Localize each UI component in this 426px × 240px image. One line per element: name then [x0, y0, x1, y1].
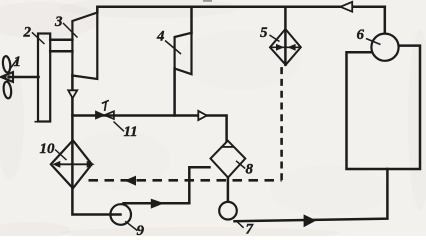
pump 6 circle	[371, 34, 398, 61]
heat exchanger 5 diamond	[270, 29, 301, 65]
label 8 leader	[236, 161, 245, 169]
scan smudge top edge	[203, 0, 212, 2]
dashed line HX5 down	[280, 66, 283, 181]
wire heat-exchanger 5 feed through diamond	[284, 7, 287, 65]
pump 9 circle	[110, 204, 131, 225]
svg-text:7: 7	[246, 222, 254, 237]
svg-text:6: 6	[357, 27, 365, 43]
wire fan shaft	[11, 76, 39, 79]
wire top main line	[97, 7, 385, 13]
solid arrow left on dashed line	[125, 176, 137, 186]
svg-text:10: 10	[40, 141, 56, 157]
svg-text:3: 3	[54, 14, 63, 30]
fan 1 spinner cone	[1, 72, 13, 82]
label 1 leader	[10, 60, 18, 70]
label 10 leader	[55, 150, 67, 161]
intake duct 2 bottom serif	[35, 121, 41, 123]
heat exchanger 10 diamond	[51, 140, 92, 188]
solid arrow right on bottom line	[304, 214, 317, 227]
label 11 leader	[114, 122, 125, 132]
svg-text:5: 5	[260, 25, 268, 41]
label 7 leader	[236, 221, 244, 228]
heat exchanger 10 inner double arrow line	[56, 163, 89, 165]
intake duct 2	[38, 34, 50, 122]
svg-text:11: 11	[124, 124, 138, 140]
wire HX8 bottom to pump 7	[227, 178, 230, 210]
svg-text:8: 8	[246, 162, 254, 178]
wire pump 9 outlet up to HX8 left side	[124, 167, 210, 203]
wire turbine 4 feed	[190, 7, 193, 33]
label 5 leader	[270, 35, 280, 42]
open arrow down below compressor	[68, 90, 77, 98]
wire combustor feed down to circle 6	[384, 7, 387, 34]
fan 1 top blade	[2, 56, 11, 73]
heat exchanger 5 inner arrow left-pointing	[287, 44, 295, 51]
wire mid horizontal line to HX8	[72, 116, 226, 141]
label 9 leader	[125, 221, 137, 230]
wire intake duct upper line	[50, 39, 72, 42]
open arrow right on mid line	[198, 111, 207, 120]
heat exchanger 8 top chord	[222, 146, 234, 148]
label 2 leader	[32, 32, 45, 44]
throttle valve 11 stem	[105, 101, 107, 111]
throttle valve 11 stem tick	[102, 100, 109, 103]
wire turbine outlet down	[173, 69, 176, 116]
wire intake duct lower line	[50, 50, 72, 53]
label 4 leader	[165, 41, 181, 55]
wire pump 7 outlet to tank	[235, 169, 388, 221]
heat exchanger 10 inner arrow right tip	[87, 161, 95, 168]
fan 1 hub	[7, 75, 11, 79]
label 6 leader	[366, 39, 381, 45]
compressor 3	[72, 13, 97, 80]
wire compressor outlet down through HX10 to bottom corner into pump 9	[72, 76, 120, 215]
svg-text:2: 2	[23, 25, 32, 41]
fan 1 spinner shading	[1, 75, 6, 79]
throttle valve 11 open half	[105, 111, 114, 119]
fan 1 bottom blade	[3, 81, 12, 99]
heat exchanger 8 diamond	[211, 141, 246, 178]
svg-text:4: 4	[156, 29, 165, 45]
throttle valve 11 solid half	[96, 111, 105, 119]
pump 7 circle	[219, 202, 237, 220]
dashed line bottom to HX10	[89, 179, 282, 182]
open arrow left on top line	[340, 2, 352, 12]
heat exchanger 10 inner arrow left tip	[52, 161, 60, 168]
turbine 4	[175, 33, 192, 74]
tank rectangle	[347, 46, 421, 169]
label 3 leader	[63, 23, 78, 38]
svg-text:9: 9	[137, 223, 145, 236]
heat exchanger 5 inner arrow right-pointing	[276, 44, 284, 51]
solid arrow right on pump 9 outlet	[151, 199, 164, 209]
heat exchanger 5 inner line	[272, 46, 300, 48]
